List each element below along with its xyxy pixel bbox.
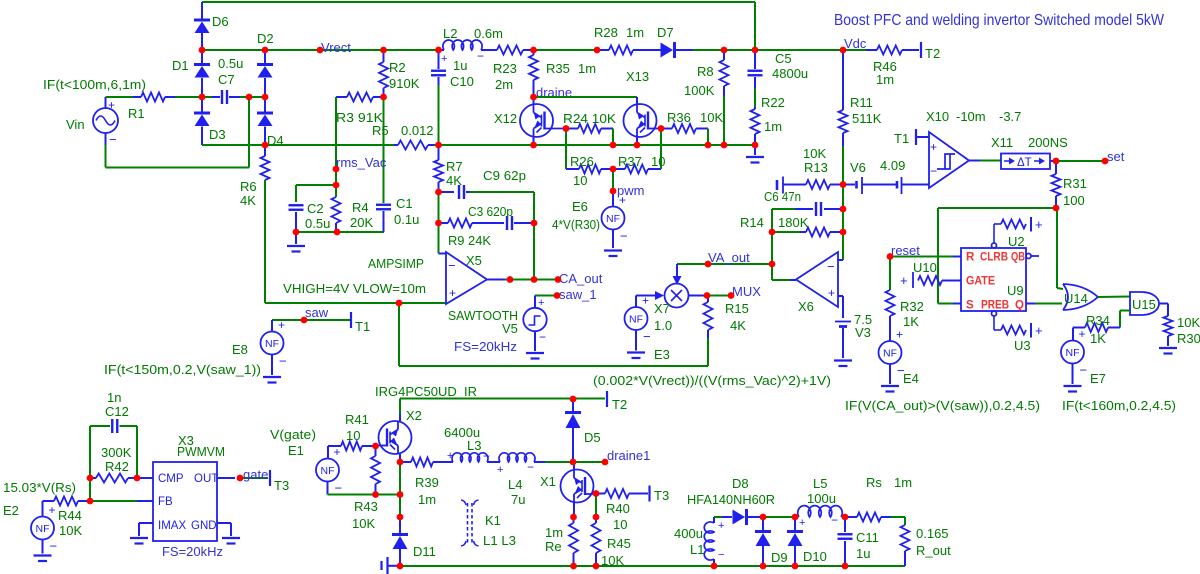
svg-text:HFA140NH60R: HFA140NH60R	[687, 492, 775, 507]
svg-text:+: +	[930, 140, 937, 154]
svg-text:−: −	[1080, 363, 1088, 378]
svg-text:+: +	[447, 450, 453, 462]
svg-text:R39: R39	[415, 475, 439, 490]
svg-text:X13: X13	[626, 69, 649, 84]
svg-text:−: −	[831, 513, 838, 527]
svg-text:R30: R30	[1177, 331, 1200, 346]
svg-text:X12: X12	[494, 111, 517, 126]
svg-text:NF: NF	[36, 523, 50, 535]
svg-text:R44: R44	[58, 508, 82, 523]
svg-text:X11: X11	[991, 135, 1013, 150]
svg-text:NF: NF	[606, 213, 620, 225]
svg-text:C12: C12	[105, 404, 129, 419]
svg-text:R40: R40	[606, 501, 630, 516]
svg-text:Boost PFC and welding invertor: Boost PFC and welding invertor Switched …	[834, 12, 1165, 29]
svg-text:−: −	[50, 539, 58, 554]
svg-text:−: −	[643, 329, 651, 344]
svg-text:100K: 100K	[684, 83, 715, 98]
svg-text:T3: T3	[654, 488, 669, 503]
svg-text:L3: L3	[467, 438, 481, 453]
svg-text:C9 62p: C9 62p	[483, 168, 526, 183]
svg-text:C5: C5	[775, 51, 792, 66]
svg-text:X2: X2	[406, 408, 422, 423]
svg-text:GND: GND	[191, 520, 217, 532]
svg-text:Rs: Rs	[866, 475, 882, 490]
svg-text:R23: R23	[493, 61, 517, 76]
svg-text:+: +	[642, 294, 649, 308]
svg-text:R8: R8	[697, 64, 714, 79]
svg-text:C2: C2	[307, 201, 324, 216]
svg-text:R42: R42	[105, 459, 129, 474]
svg-text:1u: 1u	[856, 546, 870, 561]
svg-text:IRG4PC50UD_IR: IRG4PC50UD_IR	[375, 384, 477, 399]
svg-text:ΔT: ΔT	[1017, 157, 1032, 169]
svg-text:R13: R13	[804, 160, 828, 175]
svg-text:+: +	[900, 273, 908, 288]
svg-text:+: +	[1035, 323, 1043, 338]
svg-text:-10m: -10m	[956, 109, 986, 124]
svg-text:gate: gate	[243, 467, 268, 482]
svg-text:S: S	[966, 300, 974, 312]
svg-text:10: 10	[651, 154, 665, 169]
svg-text:E3: E3	[654, 347, 670, 362]
svg-text:draine1: draine1	[607, 448, 650, 463]
svg-text:R9 24K: R9 24K	[448, 233, 491, 248]
svg-text:+: +	[1079, 327, 1086, 341]
svg-text:15.03*V(Rs): 15.03*V(Rs)	[3, 480, 76, 495]
svg-text:T3: T3	[274, 478, 289, 493]
svg-text:PREB: PREB	[981, 300, 1009, 312]
svg-text:+: +	[619, 193, 626, 207]
svg-text:D1: D1	[172, 58, 189, 73]
svg-text:10: 10	[613, 517, 627, 532]
svg-text:VHIGH=4V VLOW=10m: VHIGH=4V VLOW=10m	[283, 281, 426, 296]
svg-text:CLRB: CLRB	[980, 252, 1008, 264]
svg-text:FB: FB	[158, 496, 173, 508]
svg-text:rms_Vac: rms_Vac	[336, 155, 387, 170]
svg-text:T1: T1	[355, 319, 370, 334]
svg-text:saw: saw	[305, 305, 329, 320]
svg-text:R22: R22	[761, 95, 785, 110]
svg-text:R4: R4	[352, 200, 369, 215]
svg-text:+: +	[49, 503, 56, 517]
svg-text:−: −	[930, 164, 937, 178]
svg-text:V(gate): V(gate)	[270, 427, 316, 442]
svg-text:R28: R28	[594, 25, 618, 40]
svg-text:+: +	[828, 286, 835, 300]
svg-text:Q: Q	[1015, 300, 1024, 312]
svg-text:+: +	[441, 53, 447, 65]
svg-text:10K: 10K	[59, 523, 82, 538]
svg-text:Re: Re	[545, 539, 562, 554]
svg-text:VA_out: VA_out	[708, 250, 750, 265]
svg-text:R15: R15	[725, 301, 749, 316]
svg-text:10K: 10K	[700, 110, 723, 125]
svg-text:D11: D11	[413, 544, 436, 559]
svg-text:V5: V5	[502, 321, 518, 336]
svg-text:PWMVM: PWMVM	[177, 444, 225, 459]
svg-text:L1 L3: L1 L3	[483, 533, 516, 548]
svg-text:NF: NF	[629, 314, 643, 326]
svg-text:E4: E4	[903, 371, 919, 386]
svg-text:E7: E7	[1090, 371, 1106, 386]
svg-text:C7: C7	[218, 72, 235, 87]
svg-text:D3: D3	[209, 127, 226, 142]
svg-text:1m: 1m	[764, 119, 782, 134]
svg-text:C11: C11	[856, 530, 879, 545]
svg-text:NF: NF	[321, 465, 335, 477]
svg-text:R36: R36	[667, 110, 691, 125]
svg-text:U2: U2	[1008, 234, 1025, 249]
svg-text:X1: X1	[540, 474, 556, 489]
svg-text:20K: 20K	[350, 215, 373, 230]
svg-text:T2: T2	[925, 46, 940, 61]
svg-text:R41: R41	[345, 412, 369, 427]
svg-text:1m: 1m	[626, 25, 644, 40]
svg-text:400u: 400u	[674, 526, 703, 541]
svg-text:+: +	[278, 318, 285, 332]
svg-text:−: −	[527, 460, 534, 474]
svg-text:10: 10	[573, 173, 587, 188]
svg-text:E2: E2	[3, 503, 19, 518]
svg-text:IF(t<160m,0.2,4.5): IF(t<160m,0.2,4.5)	[1062, 398, 1176, 413]
svg-text:R24 10K: R24 10K	[563, 111, 616, 126]
svg-text:1u: 1u	[453, 58, 467, 73]
svg-text:NF: NF	[265, 338, 279, 350]
svg-text:+: +	[1035, 217, 1043, 232]
svg-text:D6: D6	[212, 14, 229, 29]
svg-text:1K: 1K	[1090, 331, 1106, 346]
svg-text:0.012: 0.012	[401, 123, 434, 138]
svg-text:IF(t<100m,6,1m): IF(t<100m,6,1m)	[43, 77, 146, 92]
svg-text:+: +	[896, 328, 903, 342]
svg-text:0.5u: 0.5u	[218, 56, 243, 71]
svg-text:U9: U9	[1007, 283, 1024, 298]
svg-text:+: +	[799, 517, 805, 529]
svg-text:−: −	[335, 481, 343, 496]
svg-text:−: −	[483, 449, 490, 463]
svg-text:1m: 1m	[894, 475, 912, 490]
svg-text:X10: X10	[926, 109, 949, 124]
svg-text:K1: K1	[485, 513, 501, 528]
svg-text:910K: 910K	[389, 76, 420, 91]
svg-text:D10: D10	[803, 549, 827, 564]
svg-text:Vdc: Vdc	[844, 36, 867, 51]
svg-text:180K: 180K	[778, 215, 809, 230]
svg-text:U10: U10	[913, 260, 937, 275]
svg-text:−: −	[448, 258, 456, 273]
svg-text:R7: R7	[446, 159, 463, 174]
svg-text:IMAX: IMAX	[158, 520, 186, 532]
svg-text:1.0: 1.0	[654, 318, 672, 333]
svg-text:100: 100	[1063, 193, 1085, 208]
svg-text:R26: R26	[570, 154, 594, 169]
svg-text:R2: R2	[389, 60, 406, 75]
svg-text:U3: U3	[1014, 338, 1031, 353]
svg-text:+: +	[108, 98, 115, 112]
svg-text:V6: V6	[850, 160, 866, 175]
svg-text:L2: L2	[443, 26, 457, 41]
svg-text:X5: X5	[466, 253, 482, 268]
svg-text:1m: 1m	[578, 61, 596, 76]
svg-text:D2: D2	[257, 31, 274, 46]
svg-text:L5: L5	[813, 476, 827, 491]
svg-text:1m: 1m	[545, 525, 563, 540]
svg-text:R37: R37	[618, 154, 642, 169]
svg-text:NF: NF	[1066, 347, 1080, 359]
svg-text:X6: X6	[798, 299, 814, 314]
svg-text:1n: 1n	[107, 390, 121, 405]
svg-text:IF(t<150m,0.2,V(saw_1)): IF(t<150m,0.2,V(saw_1))	[104, 362, 261, 377]
svg-text:R43: R43	[354, 499, 378, 514]
svg-text:R11: R11	[850, 95, 873, 110]
svg-text:CMP: CMP	[158, 473, 184, 485]
svg-text:R6: R6	[240, 179, 257, 194]
svg-text:+: +	[334, 445, 341, 459]
svg-text:NF: NF	[883, 348, 897, 360]
svg-text:OUT: OUT	[194, 473, 218, 485]
svg-text:D7: D7	[657, 25, 674, 40]
svg-text:−: −	[620, 229, 628, 244]
svg-text:C1: C1	[396, 196, 413, 211]
svg-text:R14: R14	[740, 215, 764, 230]
svg-text:QB: QB	[1011, 252, 1025, 264]
svg-text:R31: R31	[1063, 176, 1087, 191]
svg-text:100u: 100u	[807, 491, 836, 506]
svg-text:−: −	[279, 354, 287, 369]
svg-text:D8: D8	[732, 476, 749, 491]
svg-text:Vin: Vin	[66, 117, 85, 132]
svg-text:10: 10	[346, 428, 360, 443]
svg-text:U15: U15	[1132, 297, 1156, 312]
svg-text:saw_1: saw_1	[559, 287, 597, 302]
svg-text:4K: 4K	[730, 318, 746, 333]
svg-text:0.5u: 0.5u	[305, 216, 330, 231]
svg-text:R_out: R_out	[916, 543, 951, 558]
svg-text:C10: C10	[450, 74, 474, 89]
svg-text:4.09: 4.09	[880, 158, 905, 173]
svg-text:Vrect: Vrect	[321, 40, 351, 55]
svg-text:set: set	[1107, 149, 1125, 164]
svg-text:E8: E8	[232, 342, 248, 357]
svg-text:+: +	[449, 286, 456, 300]
svg-text:CA_out: CA_out	[559, 271, 603, 286]
svg-text:−: −	[827, 259, 835, 274]
svg-text:X7: X7	[654, 301, 670, 316]
svg-text:D5: D5	[584, 430, 601, 445]
svg-text:GATE: GATE	[966, 276, 995, 288]
svg-text:L1: L1	[690, 542, 704, 557]
svg-text:E1: E1	[288, 443, 304, 458]
svg-text:R35: R35	[546, 61, 570, 76]
svg-text:C3 620p: C3 620p	[468, 204, 513, 219]
svg-text:L4: L4	[508, 477, 522, 492]
svg-text:FS=20kHz: FS=20kHz	[454, 339, 517, 354]
svg-text:FS=20kHz: FS=20kHz	[162, 544, 223, 559]
svg-text:300K: 300K	[101, 445, 132, 460]
svg-text:10K: 10K	[352, 516, 375, 531]
svg-text:4800u: 4800u	[772, 66, 808, 81]
svg-text:R5: R5	[372, 123, 389, 138]
svg-text:2m: 2m	[495, 77, 513, 92]
svg-text:1m: 1m	[418, 492, 436, 507]
svg-text:T2: T2	[612, 397, 627, 412]
svg-text:1m: 1m	[876, 72, 894, 87]
svg-text:D9: D9	[771, 550, 788, 565]
svg-text:10K: 10K	[803, 146, 826, 161]
svg-text:10K: 10K	[1177, 315, 1200, 330]
svg-text:−: −	[109, 132, 117, 147]
svg-text:IF(V(CA_out)>(V(saw)),0.2,4.5): IF(V(CA_out)>(V(saw)),0.2,4.5)	[845, 398, 1040, 413]
svg-text:200NS: 200NS	[1028, 135, 1068, 150]
svg-text:0.165: 0.165	[916, 526, 949, 541]
svg-text:C6 47n: C6 47n	[764, 189, 801, 204]
svg-text:1K: 1K	[903, 314, 919, 329]
svg-text:T1: T1	[894, 131, 909, 146]
svg-text:511K: 511K	[852, 111, 882, 126]
svg-text:−: −	[718, 549, 724, 561]
svg-text:+: +	[497, 464, 503, 476]
svg-text:7u: 7u	[511, 492, 525, 507]
svg-text:(0.002*V(Vrect))/((V(rms_Vac)^: (0.002*V(Vrect))/((V(rms_Vac)^2)+1V)	[593, 373, 831, 388]
svg-text:E6: E6	[572, 199, 588, 214]
svg-text:AMPSIMP: AMPSIMP	[368, 256, 424, 271]
svg-text:R1: R1	[128, 106, 145, 121]
svg-text:R: R	[966, 252, 975, 264]
svg-text:-3.7: -3.7	[999, 109, 1021, 124]
svg-text:R32: R32	[900, 299, 924, 314]
svg-text:V3: V3	[855, 325, 871, 340]
svg-text:0.1u: 0.1u	[394, 212, 419, 227]
svg-text:R34: R34	[1086, 313, 1110, 328]
svg-text:−: −	[539, 330, 546, 344]
svg-text:0.6m: 0.6m	[474, 26, 503, 41]
svg-text:4K: 4K	[240, 193, 256, 208]
svg-text:+: +	[718, 520, 724, 532]
svg-text:+: +	[538, 297, 544, 309]
svg-text:R45: R45	[607, 536, 631, 551]
svg-text:MUX: MUX	[732, 284, 761, 299]
svg-text:−: −	[477, 49, 484, 63]
svg-text:U14: U14	[1064, 291, 1088, 306]
svg-text:4*V(R30): 4*V(R30)	[552, 217, 600, 232]
